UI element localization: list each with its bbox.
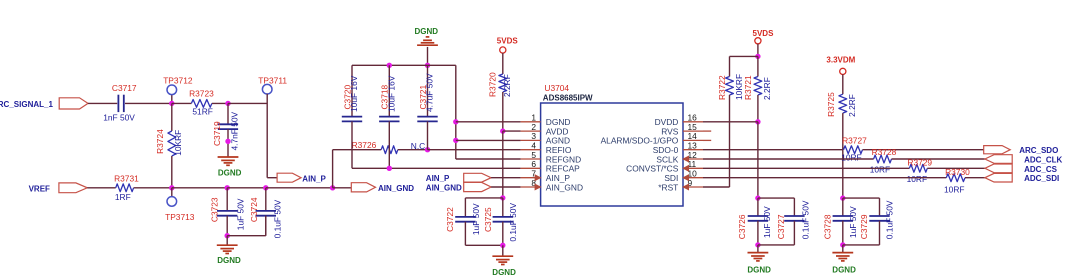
- wire DVDD riser down: [757, 122, 759, 198]
- junction C3721 bottom: [425, 147, 430, 152]
- junction C3724 top: [263, 185, 268, 190]
- wire TP3711 riser: [266, 94, 268, 178]
- svg-text:*RST: *RST: [658, 182, 678, 192]
- wire 5VDS stub: [757, 44, 759, 57]
- port ARC_SIGNAL_1: [0, 98, 88, 109]
- svg-text:10RF: 10RF: [907, 174, 927, 184]
- port ARC_SDO: [984, 146, 1059, 156]
- wire to DGND mid: [502, 245, 504, 256]
- wire riser to AIN_P port: [267, 177, 277, 179]
- wire REFCAP rail: [352, 167, 521, 169]
- port ADC_SDI: [985, 173, 1059, 183]
- svg-text:C3727: C3727: [776, 214, 786, 239]
- power 5VDS left: [497, 36, 519, 53]
- wire to DGND right1: [757, 245, 759, 253]
- svg-text:ADC_SDI: ADC_SDI: [1024, 174, 1059, 183]
- pin 7 input arrow: [535, 175, 541, 181]
- svg-text:10RF: 10RF: [944, 184, 964, 194]
- svg-text:2.2RF: 2.2RF: [502, 74, 512, 97]
- resistor R3723: [189, 89, 214, 117]
- resistor R3731: [114, 173, 139, 201]
- wire pin2 row: [503, 130, 521, 132]
- wire R3730 to ADC_SDI: [965, 177, 985, 179]
- junction AVDD pin2: [500, 128, 505, 133]
- wire pin3 row: [456, 139, 521, 141]
- capacitor C3721: [417, 65, 437, 149]
- svg-text:AIN_P: AIN_P: [426, 174, 450, 183]
- svg-text:ARC_SDO: ARC_SDO: [1019, 146, 1058, 155]
- node B junction: [225, 101, 230, 106]
- pin 14 ALARM stub: [703, 139, 711, 141]
- wire pin1 row: [456, 121, 521, 123]
- junction caps bottom right1: [755, 242, 760, 247]
- port ADC_CS: [985, 164, 1058, 174]
- svg-text:C3726: C3726: [737, 214, 747, 239]
- svg-text:VREF: VREF: [29, 184, 50, 193]
- capacitor C3724: [249, 188, 283, 239]
- junction caps bottom right2: [840, 242, 845, 247]
- capacitor C3729: [859, 200, 895, 245]
- junction DGND riser pin3: [453, 138, 458, 143]
- svg-text:R3724: R3724: [155, 129, 165, 154]
- power 5VDS right: [753, 29, 775, 44]
- svg-text:R3721: R3721: [743, 75, 753, 100]
- svg-text:AIN_GND: AIN_GND: [546, 182, 583, 192]
- wire ARC_SIGNAL_1 to C3717: [88, 102, 117, 104]
- wire R3725 riser down: [842, 113, 844, 198]
- capacitor C3720: [342, 65, 362, 168]
- svg-text:TP3712: TP3712: [163, 75, 193, 85]
- wire DGND rail: [352, 64, 456, 66]
- capacitor C3727: [776, 200, 811, 245]
- svg-text:TP3713: TP3713: [165, 212, 195, 222]
- wire SDI row: [703, 177, 946, 179]
- wire VREF node to C3723: [172, 187, 227, 189]
- junction C3718 REFCAP: [387, 166, 392, 171]
- wire VREF to R3731: [87, 187, 115, 189]
- capacitor C3723: [210, 188, 246, 236]
- wire caps bottom rail: [227, 216, 266, 236]
- svg-text:2.2RF: 2.2RF: [847, 94, 857, 117]
- node A junction: [169, 101, 174, 106]
- label ADS8685IPW: [543, 94, 593, 103]
- ground DGND under C3723 C3724: [217, 245, 241, 265]
- wire caps bottom rail mid: [465, 244, 502, 246]
- port AIN_GND: [351, 183, 414, 193]
- wire to REFIO riser: [266, 187, 333, 189]
- ground DGND right2: [832, 253, 856, 275]
- svg-text:R3729: R3729: [907, 157, 932, 167]
- junction C3718 rail: [387, 63, 392, 68]
- svg-text:R3730: R3730: [945, 167, 970, 177]
- svg-text:AIN_P: AIN_P: [302, 174, 326, 183]
- svg-text:4.7uF 50V: 4.7uF 50V: [425, 73, 435, 112]
- pin 10 input arrow: [683, 175, 689, 181]
- resistor R3724: [155, 103, 183, 187]
- svg-text:C3723: C3723: [210, 197, 220, 222]
- junction 3.3VDM caps: [840, 195, 845, 200]
- wire SCLK row: [703, 158, 874, 160]
- resistor R3726 N.C.: [352, 140, 428, 153]
- wire REFIO row to IC pin 4: [428, 149, 521, 151]
- svg-text:1nF 50V: 1nF 50V: [103, 113, 135, 123]
- wire R3729 to ADC_CS: [927, 167, 985, 169]
- svg-text:51RF: 51RF: [192, 107, 212, 117]
- junction DGND rail: [425, 63, 430, 68]
- svg-text:1RF: 1RF: [115, 192, 131, 202]
- test point TP3713: [165, 188, 195, 222]
- svg-text:1uF 50V: 1uF 50V: [236, 198, 246, 230]
- wire R3720 to AVDD: [502, 92, 504, 131]
- svg-text:ARC_SIGNAL_1: ARC_SIGNAL_1: [0, 100, 53, 109]
- wire AIN_P to pin7: [491, 177, 520, 179]
- svg-text:DGND: DGND: [747, 266, 771, 275]
- capacitor C3725: [483, 198, 518, 245]
- resistor R3728: [870, 147, 897, 174]
- svg-text:R3722: R3722: [717, 75, 727, 100]
- port AIN_GND input: [426, 182, 491, 192]
- resistor R3720: [488, 72, 512, 97]
- wire to AIN_GND port: [333, 187, 352, 189]
- wire node A to R3723: [172, 102, 192, 104]
- svg-text:10KRF: 10KRF: [173, 130, 183, 156]
- wire 3.3VDM to R3725: [842, 74, 844, 94]
- IC right pins 16-9 stubs numbers names: [601, 113, 703, 193]
- svg-text:DGND: DGND: [218, 169, 242, 178]
- svg-text:1uF 50V: 1uF 50V: [762, 206, 772, 238]
- svg-text:U3704: U3704: [544, 83, 569, 93]
- svg-text:0.1uF 50V: 0.1uF 50V: [273, 199, 283, 238]
- svg-text:DGND: DGND: [492, 268, 516, 277]
- svg-text:1uF 50V: 1uF 50V: [471, 203, 481, 235]
- wire SDO-0 row: [703, 149, 844, 151]
- svg-text:AIN_GND: AIN_GND: [378, 184, 414, 193]
- wire C3717 to node A: [125, 102, 172, 104]
- junction caps bottom mid: [500, 243, 505, 248]
- svg-text:R3731: R3731: [114, 173, 139, 183]
- svg-text:3.3VDM: 3.3VDM: [826, 55, 855, 64]
- svg-text:ADS8685IPW: ADS8685IPW: [543, 94, 593, 103]
- capacitor C3718: [379, 65, 399, 168]
- resistor R3725: [826, 92, 857, 117]
- op-amp U1 ADC U3704 box: [541, 103, 683, 206]
- junction DGND riser pin1: [453, 119, 458, 124]
- wire R3731 to VREF node: [134, 187, 172, 189]
- wire R3722 to RST row: [703, 95, 730, 187]
- port AIN_P: [277, 173, 326, 183]
- wire 5VDS to R3720: [502, 53, 504, 74]
- junction caps bottom: [225, 233, 230, 238]
- svg-text:5VDS: 5VDS: [753, 29, 775, 38]
- IC left pins 1-8 stubs numbers names: [521, 113, 583, 193]
- wire caps top rail right1: [758, 198, 795, 216]
- junction REFIO riser: [330, 185, 335, 190]
- resistor R3727: [841, 136, 867, 163]
- svg-text:C3729: C3729: [859, 214, 869, 239]
- capacitor C3717: [103, 83, 137, 122]
- junction C3723 top: [225, 185, 230, 190]
- svg-text:TP3711: TP3711: [258, 75, 287, 85]
- port VREF: [29, 183, 88, 193]
- svg-text:R3725: R3725: [826, 92, 836, 117]
- junction AVDD caps top: [500, 195, 505, 200]
- svg-text:0.1uF 50V: 0.1uF 50V: [885, 200, 895, 239]
- wire R3728 to ADC_CLK: [892, 158, 985, 160]
- capacitor C3722: [445, 203, 481, 245]
- wire R3726 to C3721 node: [398, 149, 428, 151]
- test point TP3712: [163, 75, 193, 103]
- svg-text:4.7nF 50V: 4.7nF 50V: [229, 111, 239, 150]
- label U3704: [544, 83, 569, 93]
- port AIN_P input: [426, 173, 491, 183]
- wire AVDD riser down: [502, 131, 504, 198]
- svg-text:C3717: C3717: [112, 83, 137, 93]
- wire caps top rail right2: [843, 198, 880, 216]
- wire pin16 row: [703, 121, 758, 123]
- wire R3721 to DVDD: [757, 95, 759, 122]
- wire to DGND: [226, 236, 228, 246]
- capacitor C3719: [212, 103, 239, 157]
- svg-text:5VDS: 5VDS: [497, 36, 519, 45]
- svg-text:10uF 16V: 10uF 16V: [349, 75, 359, 112]
- wire caps top rail mid: [465, 198, 502, 217]
- junction DVDD pin16: [755, 119, 760, 124]
- svg-text:R3726: R3726: [352, 140, 377, 150]
- resistor R3721: [743, 56, 772, 100]
- port ADC_CLK: [985, 155, 1063, 165]
- ground DGND top: [415, 27, 439, 65]
- svg-text:R3727: R3727: [842, 136, 867, 146]
- resistor R3730: [944, 167, 970, 195]
- svg-text:ADC_CS: ADC_CS: [1024, 165, 1058, 174]
- svg-text:C3728: C3728: [822, 214, 832, 239]
- svg-text:C3719: C3719: [212, 121, 222, 146]
- power 3.3VDM: [826, 55, 855, 74]
- svg-text:DGND: DGND: [217, 256, 241, 265]
- svg-text:DGND: DGND: [415, 27, 439, 36]
- pin 9 input arrow: [683, 184, 689, 190]
- svg-text:ADC_CLK: ADC_CLK: [1024, 155, 1062, 164]
- svg-text:DGND: DGND: [832, 266, 856, 275]
- wire to DGND right2: [842, 245, 844, 253]
- pin 8 input arrow: [535, 184, 541, 190]
- svg-text:R3720: R3720: [488, 72, 498, 97]
- resistor R3722: [717, 74, 744, 100]
- resistor R3729: [907, 157, 933, 184]
- wire DGND riser: [456, 65, 521, 159]
- wire caps bottom rail right2: [843, 244, 880, 246]
- svg-text:C3722: C3722: [445, 207, 455, 232]
- svg-text:AIN_GND: AIN_GND: [426, 184, 462, 193]
- capacitor C3726: [737, 198, 772, 245]
- test point TP3711: [258, 75, 287, 94]
- ground DGND mid: [492, 256, 516, 277]
- wire node B to TP3711 riser: [228, 102, 267, 104]
- wire REFIO riser vertical: [333, 150, 382, 188]
- wire CONVST row: [703, 167, 909, 169]
- capacitor C3728: [822, 198, 858, 245]
- wire AIN_GND to pin8: [491, 186, 520, 188]
- wire R3727 to ARC_SDO: [863, 149, 984, 151]
- svg-text:1uF 50V: 1uF 50V: [848, 206, 858, 238]
- svg-text:0.1uF 50V: 0.1uF 50V: [508, 203, 518, 242]
- svg-text:0.1uF 50V: 0.1uF 50V: [801, 200, 811, 239]
- svg-text:10RF: 10RF: [870, 165, 890, 175]
- wire to C3724 tap: [227, 187, 266, 189]
- junction VREF node: [169, 185, 174, 190]
- wire branch to R3722: [730, 56, 758, 76]
- svg-text:10uF 16V: 10uF 16V: [386, 75, 396, 112]
- ground DGND right1: [747, 253, 771, 275]
- wire R3723 to node B: [212, 102, 228, 104]
- pin 12 input arrow: [683, 156, 689, 162]
- wire caps bottom rail right1: [758, 244, 795, 246]
- junction DVDD caps: [755, 195, 760, 200]
- svg-text:10RF: 10RF: [841, 153, 861, 163]
- svg-text:2.2RF: 2.2RF: [762, 77, 772, 100]
- svg-text:R3723: R3723: [189, 89, 214, 99]
- pin 11 input arrow: [683, 165, 689, 171]
- svg-text:C3725: C3725: [483, 207, 493, 232]
- junction 5VDS split: [755, 54, 760, 59]
- svg-text:C3724: C3724: [249, 197, 259, 222]
- ground DGND under C3719: [218, 157, 242, 178]
- svg-text:R3728: R3728: [872, 147, 897, 157]
- pin 15 RVS stub: [703, 130, 711, 132]
